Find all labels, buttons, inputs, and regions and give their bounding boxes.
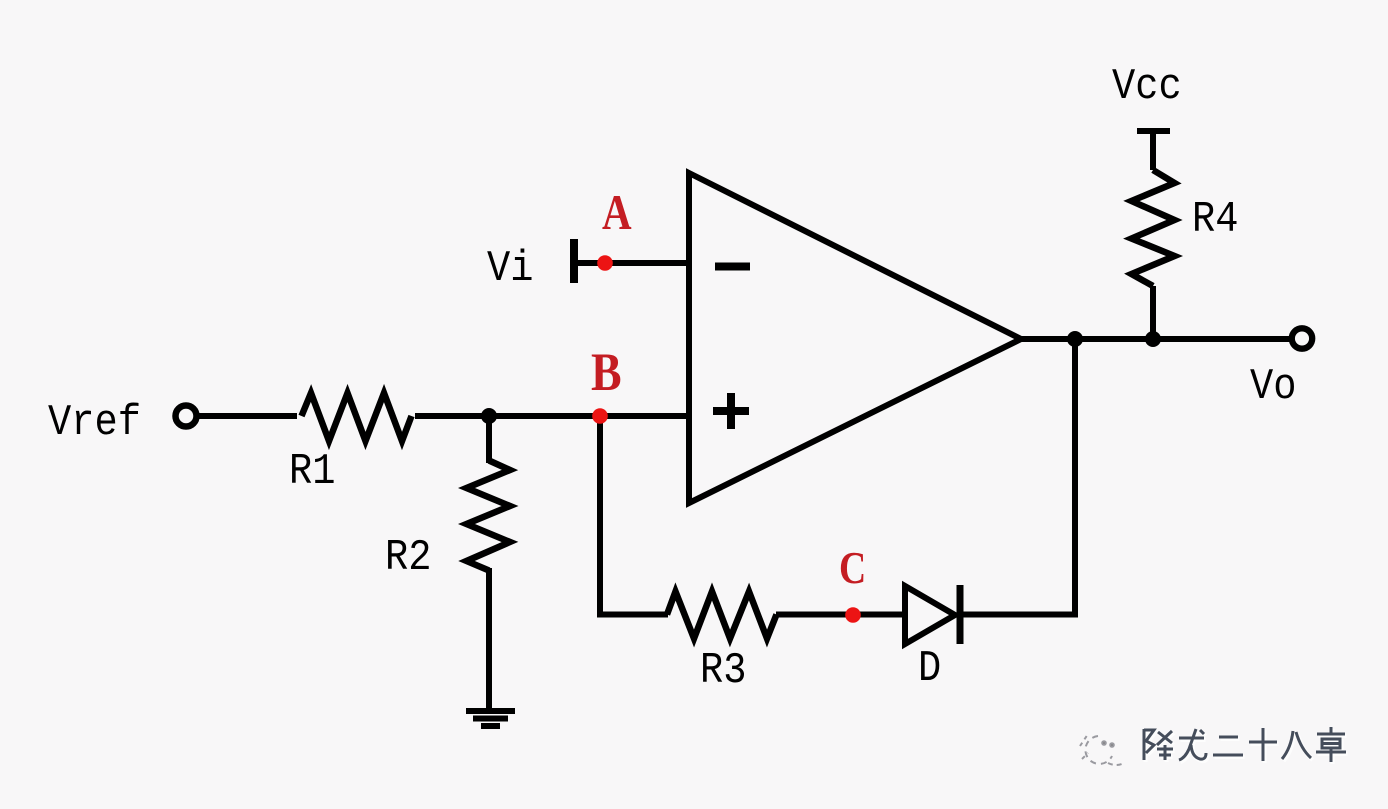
- svg-text:R4: R4: [1192, 196, 1238, 245]
- svg-text:B: B: [591, 342, 622, 402]
- svg-text:R2: R2: [385, 534, 431, 583]
- svg-text:C: C: [839, 544, 866, 594]
- svg-text:R1: R1: [289, 448, 335, 497]
- svg-text:R3: R3: [700, 647, 746, 696]
- svg-text:A: A: [602, 184, 632, 240]
- svg-text:Vi: Vi: [487, 245, 533, 294]
- svg-text:Vref: Vref: [48, 399, 141, 448]
- svg-text:D: D: [918, 645, 941, 694]
- svg-text:Vcc: Vcc: [1112, 63, 1182, 112]
- svg-text:Vo: Vo: [1250, 363, 1296, 412]
